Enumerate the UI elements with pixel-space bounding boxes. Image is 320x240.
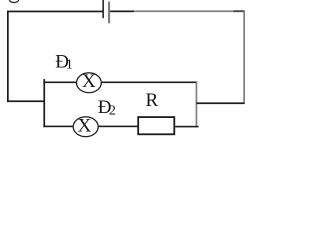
wire D1 branch left segment: [43, 82, 77, 84]
svg-text:R: R: [146, 90, 159, 111]
wire D1 branch right segment: [101, 82, 197, 84]
wire top-right dark end segment: [234, 10, 246, 12]
lamp D2: [73, 116, 98, 137]
wire outer-right vertical (gray): [243, 10, 245, 104]
wire lamp D2 to resistor: [98, 126, 137, 128]
battery left plate: [102, 0, 104, 18]
svg-text:X: X: [82, 71, 96, 92]
wire D2 branch left segment: [43, 126, 73, 128]
wire top-left horizontal: [7, 11, 103, 13]
wire left connector horizontal: [7, 100, 45, 102]
EMF label xi (cut off at top edge): [9, 0, 18, 3]
wire inner-right vertical (gray): [196, 81, 198, 127]
svg-text:1: 1: [66, 58, 73, 73]
wire right of battery (black part): [110, 11, 134, 13]
battery right plate: [108, 2, 110, 24]
svg-text:X: X: [78, 116, 92, 137]
wire outer-left vertical: [7, 11, 9, 103]
resistor R: [138, 117, 174, 134]
wire top-right horizontal (gray): [134, 10, 245, 12]
wire resistor to inner-right vertical: [175, 126, 198, 128]
svg-text:2: 2: [109, 103, 116, 118]
wire inner-left vertical: [43, 79, 45, 127]
lamp D1: [77, 71, 102, 93]
wire right connector horizontal: [196, 102, 244, 104]
